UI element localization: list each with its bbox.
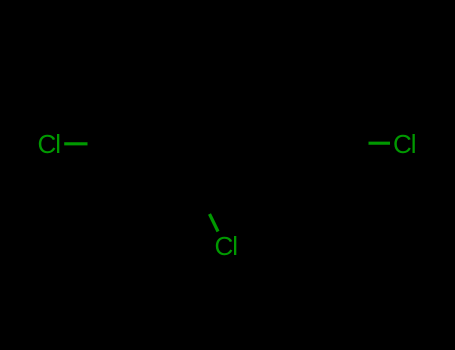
svg-text:Cl: Cl xyxy=(215,231,238,261)
svg-text:Cl: Cl xyxy=(38,129,61,159)
bond ring C2 to Cl (diagonal) xyxy=(210,214,219,232)
bond right ring C4' to Cl xyxy=(369,142,391,145)
svg-text:Cl: Cl xyxy=(393,129,416,159)
atom Cl (right, 4'-position) xyxy=(393,129,416,159)
bond left ring C4 to Cl xyxy=(64,142,87,145)
atom Cl (left, 4-position) xyxy=(38,129,61,159)
atom Cl (bottom, 2-position) xyxy=(215,231,238,261)
